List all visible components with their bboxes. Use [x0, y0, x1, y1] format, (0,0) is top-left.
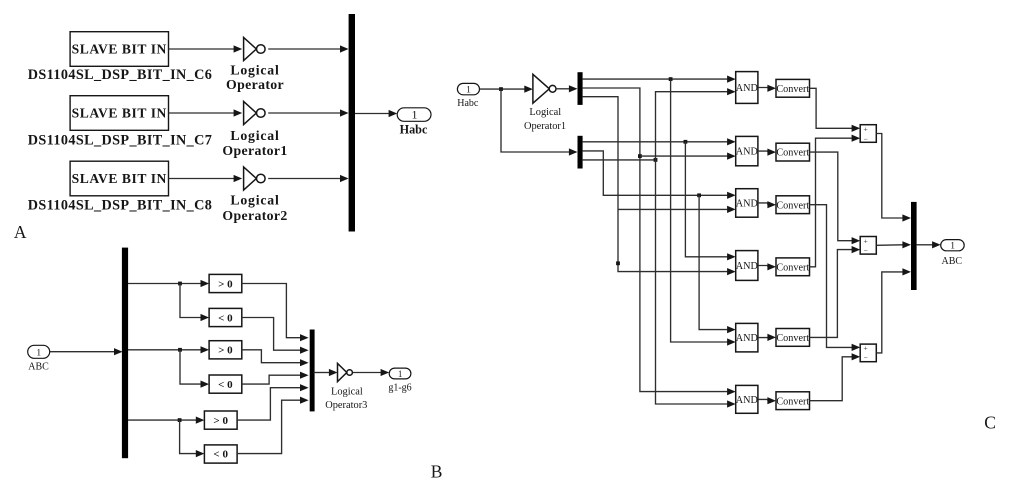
label ABC (B input) [28, 362, 49, 373]
block Convert 6 [776, 392, 810, 410]
svg-text:1: 1 [398, 369, 403, 379]
svg-text:< 0: < 0 [218, 379, 233, 391]
wire net A [583, 141, 728, 143]
wire Sum3 to mux [876, 272, 902, 353]
inport 1 oval Habc (C) [457, 83, 479, 95]
block Convert 5 [776, 329, 810, 347]
svg-text:−: − [863, 134, 867, 143]
svg-text:Operator2: Operator2 [222, 208, 287, 223]
arrowhead [329, 369, 338, 376]
wire [237, 400, 300, 453]
svg-text:< 0: < 0 [218, 312, 233, 324]
arrowhead [196, 417, 205, 424]
block Convert 4 [776, 258, 810, 276]
wire net C up branch [656, 92, 728, 160]
junction [654, 158, 658, 162]
svg-text:1: 1 [950, 242, 955, 252]
arrowhead [727, 206, 736, 213]
block Sum 1 [860, 124, 876, 143]
junction [178, 282, 182, 286]
wire [242, 350, 300, 363]
arrowhead [234, 175, 243, 182]
wire [169, 178, 235, 180]
wire net B-not [583, 88, 728, 392]
wire net C-not branch [618, 208, 727, 210]
block SLAVE BIT IN 1 [70, 32, 168, 67]
arrowhead [300, 347, 309, 354]
svg-text:Convert: Convert [776, 262, 809, 273]
svg-text:A: A [14, 222, 27, 242]
arrowhead [852, 344, 861, 351]
junction [697, 193, 701, 197]
arrowhead [932, 241, 941, 248]
label g1-g6 [388, 382, 411, 393]
svg-text:SLAVE BIT IN: SLAVE BIT IN [72, 171, 167, 186]
arrowhead [852, 125, 861, 132]
block AND 4 [736, 251, 758, 281]
svg-text:Operator1: Operator1 [524, 121, 566, 132]
wire [268, 178, 340, 180]
wire net A branch [685, 142, 727, 257]
arrowhead [902, 241, 911, 248]
svg-text:−: − [863, 353, 867, 362]
svg-text:DS1104SL_DSP_BIT_IN_C6: DS1104SL_DSP_BIT_IN_C6 [28, 67, 213, 83]
demux B bar [122, 248, 128, 459]
wire [758, 336, 768, 338]
arrowhead [300, 359, 309, 366]
wire [480, 88, 525, 90]
arrowhead [727, 153, 736, 160]
label Logical Operator [226, 62, 284, 92]
arrowhead [727, 138, 736, 145]
arrowhead [727, 88, 736, 95]
block AND 5 [736, 323, 758, 352]
svg-text:Operator3: Operator3 [325, 400, 367, 411]
svg-text:1: 1 [466, 86, 471, 96]
svg-text:Convert: Convert [776, 84, 809, 95]
svg-text:AND: AND [736, 147, 758, 158]
label DS1104SL_DSP_BIT_IN_C8 [28, 198, 213, 214]
wire Convert6 to Sum3 [810, 357, 853, 401]
svg-text:1: 1 [36, 348, 41, 358]
arrowhead [767, 397, 776, 404]
wire Convert2 to Sum2 [810, 152, 853, 241]
wire [353, 372, 381, 374]
arrowhead [340, 109, 349, 116]
block Sum 3 [860, 343, 876, 362]
label Logical Operator1 [222, 128, 287, 158]
wire [917, 244, 933, 246]
arrowhead [727, 76, 736, 83]
arrowhead [234, 109, 243, 116]
wire [128, 349, 201, 351]
svg-text:ABC: ABC [942, 256, 963, 267]
block compare < 0 2 [209, 308, 242, 326]
arrowhead [767, 263, 776, 270]
arrowhead [389, 110, 398, 117]
wire [758, 266, 768, 267]
label A [14, 222, 27, 242]
arrowhead [727, 268, 736, 275]
block compare > 0 1 [209, 274, 242, 292]
wire [758, 203, 768, 205]
wire [501, 89, 569, 152]
block compare < 0 6 [204, 445, 237, 463]
wire [758, 151, 768, 152]
svg-text:Convert: Convert [776, 396, 809, 407]
arrowhead [767, 149, 776, 156]
wire [268, 48, 340, 50]
wire [169, 48, 235, 50]
arrowhead [727, 253, 736, 260]
outport g1-g6 oval [389, 368, 411, 379]
wire net A-not [583, 78, 728, 80]
arrowhead [852, 246, 861, 253]
arrowhead [300, 372, 309, 379]
arrowhead [196, 450, 205, 457]
svg-text:AND: AND [736, 333, 758, 344]
wire [180, 420, 197, 454]
block compare > 0 3 [209, 341, 242, 359]
arrowhead [727, 192, 736, 199]
block Sum 2 [860, 237, 876, 255]
wire Sum1 to mux [876, 134, 902, 219]
arrowhead [727, 388, 736, 395]
wire Convert5 to Sum2 [810, 250, 853, 338]
svg-text:> 0: > 0 [218, 278, 233, 290]
svg-text:Habc: Habc [400, 122, 428, 136]
arrowhead [340, 175, 349, 182]
svg-text:Logical: Logical [230, 128, 279, 143]
inport 1 oval (B) [28, 345, 50, 358]
junction [178, 418, 182, 422]
arrowhead [767, 334, 776, 341]
demux C upper bar [578, 72, 583, 105]
demux C lower bar [578, 136, 583, 169]
block Convert 3 [776, 196, 810, 214]
label Habc (C) [457, 98, 479, 109]
wire net A-not branch [671, 79, 728, 342]
block Convert 2 [776, 143, 810, 161]
op-amp NOT gate Logical Operator [244, 37, 266, 60]
svg-text:g1-g6: g1-g6 [388, 382, 411, 393]
label Logical Operator2 [222, 193, 287, 223]
svg-text:Convert: Convert [776, 200, 809, 211]
arrowhead [569, 85, 578, 92]
label ABC (C output) [942, 256, 963, 267]
svg-text:ABC: ABC [28, 362, 49, 373]
wire [128, 419, 196, 421]
junction [638, 154, 642, 158]
junction [499, 87, 503, 91]
arrowhead [201, 346, 210, 353]
arrowhead [767, 85, 776, 92]
svg-text:SLAVE BIT IN: SLAVE BIT IN [72, 106, 167, 121]
op-amp NOT gate Logical Operator3 [338, 363, 353, 381]
wire net C-not [583, 97, 728, 272]
svg-text:> 0: > 0 [213, 415, 228, 427]
junction [684, 140, 688, 144]
block SLAVE BIT IN 3 [70, 161, 168, 196]
arrowhead [524, 86, 533, 93]
wire [556, 88, 569, 90]
svg-text:+: + [863, 343, 867, 352]
arrowhead [381, 369, 390, 376]
svg-text:1: 1 [412, 108, 418, 122]
wire [50, 351, 115, 353]
wire net C [583, 159, 656, 161]
arrowhead [201, 280, 210, 287]
svg-text:Convert: Convert [776, 333, 809, 344]
block Convert 1 [776, 79, 810, 97]
block compare < 0 4 [209, 375, 242, 393]
arrowhead [727, 338, 736, 345]
arrowhead [767, 201, 776, 208]
arrowhead [902, 214, 911, 221]
label Habc [400, 122, 428, 136]
junction [178, 348, 182, 352]
wire [268, 112, 340, 114]
wire net B branch [699, 195, 727, 329]
svg-text:Convert: Convert [776, 148, 809, 159]
wire net C down branch [656, 160, 728, 404]
arrowhead [300, 384, 309, 391]
arrowhead [340, 45, 349, 52]
svg-text:AND: AND [736, 199, 758, 210]
wire [128, 283, 201, 285]
mux B bar [310, 330, 315, 412]
outport ABC oval [941, 240, 965, 252]
arrowhead [902, 268, 911, 275]
arrowhead [727, 400, 736, 407]
wire [242, 375, 300, 384]
wire [169, 112, 235, 114]
svg-text:Operator: Operator [226, 77, 284, 92]
svg-text:SLAVE BIT IN: SLAVE BIT IN [72, 42, 167, 57]
wire [355, 113, 389, 115]
svg-text:Logical: Logical [230, 62, 279, 77]
label DS1104SL_DSP_BIT_IN_C6 [28, 67, 213, 83]
arrowhead [852, 135, 861, 142]
wire [180, 284, 201, 318]
arrowhead [201, 381, 210, 388]
svg-text:+: + [863, 124, 867, 133]
svg-text:−: − [863, 246, 867, 255]
label B [431, 461, 443, 481]
arrowhead [234, 45, 243, 52]
wire net B [583, 151, 728, 195]
wire Convert4 to Sum1 [810, 138, 853, 267]
svg-text:> 0: > 0 [218, 345, 233, 357]
wire [242, 284, 300, 338]
svg-text:Habc: Habc [457, 98, 479, 109]
wire net B-not branch [640, 155, 728, 157]
svg-text:C: C [984, 413, 996, 433]
svg-text:< 0: < 0 [213, 448, 228, 460]
arrowhead [114, 348, 123, 355]
svg-text:Logical: Logical [331, 386, 363, 397]
svg-text:Operator1: Operator1 [222, 143, 287, 158]
wire [758, 87, 768, 90]
svg-text:Logical: Logical [230, 193, 279, 208]
svg-text:AND: AND [736, 261, 758, 272]
svg-text:B: B [431, 461, 443, 481]
svg-text:DS1104SL_DSP_BIT_IN_C8: DS1104SL_DSP_BIT_IN_C8 [28, 198, 213, 214]
wire [242, 318, 300, 351]
block SLAVE BIT IN 2 [70, 96, 168, 131]
svg-text:AND: AND [736, 395, 758, 406]
block AND 3 [736, 189, 758, 218]
svg-text:Logical: Logical [529, 107, 561, 118]
block compare > 0 5 [204, 411, 237, 429]
arrowhead [569, 148, 578, 155]
wire Convert1 to Sum1 [810, 88, 853, 128]
label C [984, 413, 996, 433]
mux C bar [911, 202, 917, 290]
label DS1104SL_DSP_BIT_IN_C7 [28, 133, 213, 149]
op-amp NOT gate Logical Operator2 [244, 167, 266, 190]
arrowhead [300, 334, 309, 341]
mux A bar [349, 14, 355, 232]
arrowhead [852, 237, 861, 244]
wire [180, 350, 201, 384]
svg-text:AND: AND [736, 83, 758, 94]
block AND 6 [736, 385, 758, 413]
arrowhead [300, 397, 309, 404]
arrowhead [727, 326, 736, 333]
wire Convert3 to Sum3 [810, 205, 853, 348]
block AND 2 [736, 136, 758, 165]
arrowhead [201, 314, 210, 321]
op-amp NOT gate Logical Operator1 [244, 101, 266, 124]
junction [616, 261, 620, 265]
label Logical Operator1 (C) [524, 107, 566, 132]
svg-text:+: + [863, 237, 867, 246]
wire [237, 388, 300, 420]
wire [758, 399, 768, 400]
junction [669, 77, 673, 81]
wire Sum2 to mux [876, 244, 902, 247]
label Logical Operator3 [325, 386, 367, 410]
arrowhead [852, 353, 861, 360]
svg-text:DS1104SL_DSP_BIT_IN_C7: DS1104SL_DSP_BIT_IN_C7 [28, 133, 213, 149]
op-amp NOT gate Logical Operator1 (C) [533, 74, 556, 103]
wire [314, 372, 330, 374]
block AND 1 [736, 72, 758, 104]
outport Habc oval [397, 108, 431, 122]
